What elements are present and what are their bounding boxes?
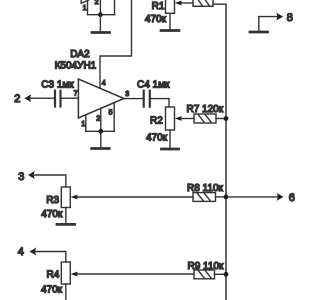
resistor R2 (pot) [166, 107, 175, 148]
svg-text:R1: R1 [152, 1, 165, 12]
svg-text:7: 7 [74, 91, 78, 98]
svg-text:R2: R2 [150, 116, 163, 127]
svg-text:2: 2 [14, 93, 20, 105]
svg-text:470к: 470к [41, 209, 63, 220]
svg-text:6: 6 [289, 192, 295, 204]
wire C4 to R2 [168, 99, 170, 107]
node 6 arrow [226, 193, 283, 201]
svg-text:3: 3 [18, 171, 24, 183]
svg-text:8: 8 [287, 12, 293, 24]
ground (below R3) [57, 223, 75, 226]
R3 wiper arrow [71, 195, 193, 200]
svg-text:К504УН1: К504УН1 [55, 61, 97, 72]
R2 wiper arrow [175, 116, 194, 121]
junction dot [98, 12, 103, 17]
svg-text:R3: R3 [46, 195, 59, 206]
svg-text:2: 2 [96, 115, 100, 122]
svg-text:1: 1 [83, 5, 87, 12]
junction dot [224, 272, 229, 277]
svg-text:R7 120к: R7 120к [187, 104, 224, 115]
node 3 arrow [28, 171, 66, 187]
resistor R1 (pot, cut at top) [166, 0, 175, 29]
R1 wiper arrow [175, 1, 193, 6]
capacitor C4 [144, 91, 169, 107]
svg-text:C4 1мк: C4 1мк [137, 80, 170, 91]
svg-text:3: 3 [125, 91, 129, 98]
wire joining DA1 pins 1,2,5 [88, 14, 115, 16]
junction dot [224, 116, 229, 121]
wire to bus [213, 3, 226, 5]
ground (below R2) [162, 148, 179, 151]
svg-text:5: 5 [109, 109, 113, 116]
svg-text:4: 4 [102, 80, 106, 87]
wire to ground [100, 131, 102, 147]
DA2 bottom pins 1,2,5 [86, 103, 114, 132]
R4 wiper arrow [71, 272, 194, 277]
svg-text:R9 110к: R9 110к [188, 261, 225, 272]
svg-text:470к: 470к [146, 133, 168, 144]
svg-text:C3 1мк: C3 1мк [41, 80, 74, 91]
resistor R7 [194, 114, 226, 123]
svg-text:R4: R4 [47, 270, 60, 281]
wire to ground [99, 15, 101, 32]
resistor R3 (pot) [61, 187, 70, 223]
op-amp DA1 (partial, cut at top) [81, 0, 114, 15]
pin 8 to ground [259, 13, 283, 32]
ground (below R1) [161, 29, 179, 32]
svg-text:470к: 470к [145, 14, 167, 25]
capacitor C3 [55, 91, 78, 107]
node 2 arrow [25, 94, 55, 102]
svg-text:DA2: DA2 [70, 49, 90, 60]
bus wire (right vertical) [225, 4, 227, 300]
ground (below DA1) [92, 31, 110, 34]
junction dot [98, 129, 103, 134]
op-amp DA2 [78, 79, 124, 118]
ground (pin 8) [250, 31, 268, 34]
svg-text:2: 2 [95, 0, 99, 6]
resistor R8 [193, 193, 226, 202]
ground (below DA2) [92, 147, 110, 150]
svg-text:1: 1 [81, 121, 85, 128]
output wire pin 3 to C4 [124, 98, 143, 100]
resistor (hatched, cut at top) [193, 0, 213, 6]
svg-text:R8 110к: R8 110к [187, 183, 224, 194]
svg-text:470к: 470к [41, 285, 63, 296]
node 4 arrow [30, 248, 66, 263]
resistor R9 [194, 270, 226, 279]
svg-text:4: 4 [18, 246, 24, 258]
junction dot [224, 195, 229, 200]
resistor R4 (pot) [61, 262, 70, 300]
wire DA2 pin 4 to supply (top) [100, 0, 132, 88]
